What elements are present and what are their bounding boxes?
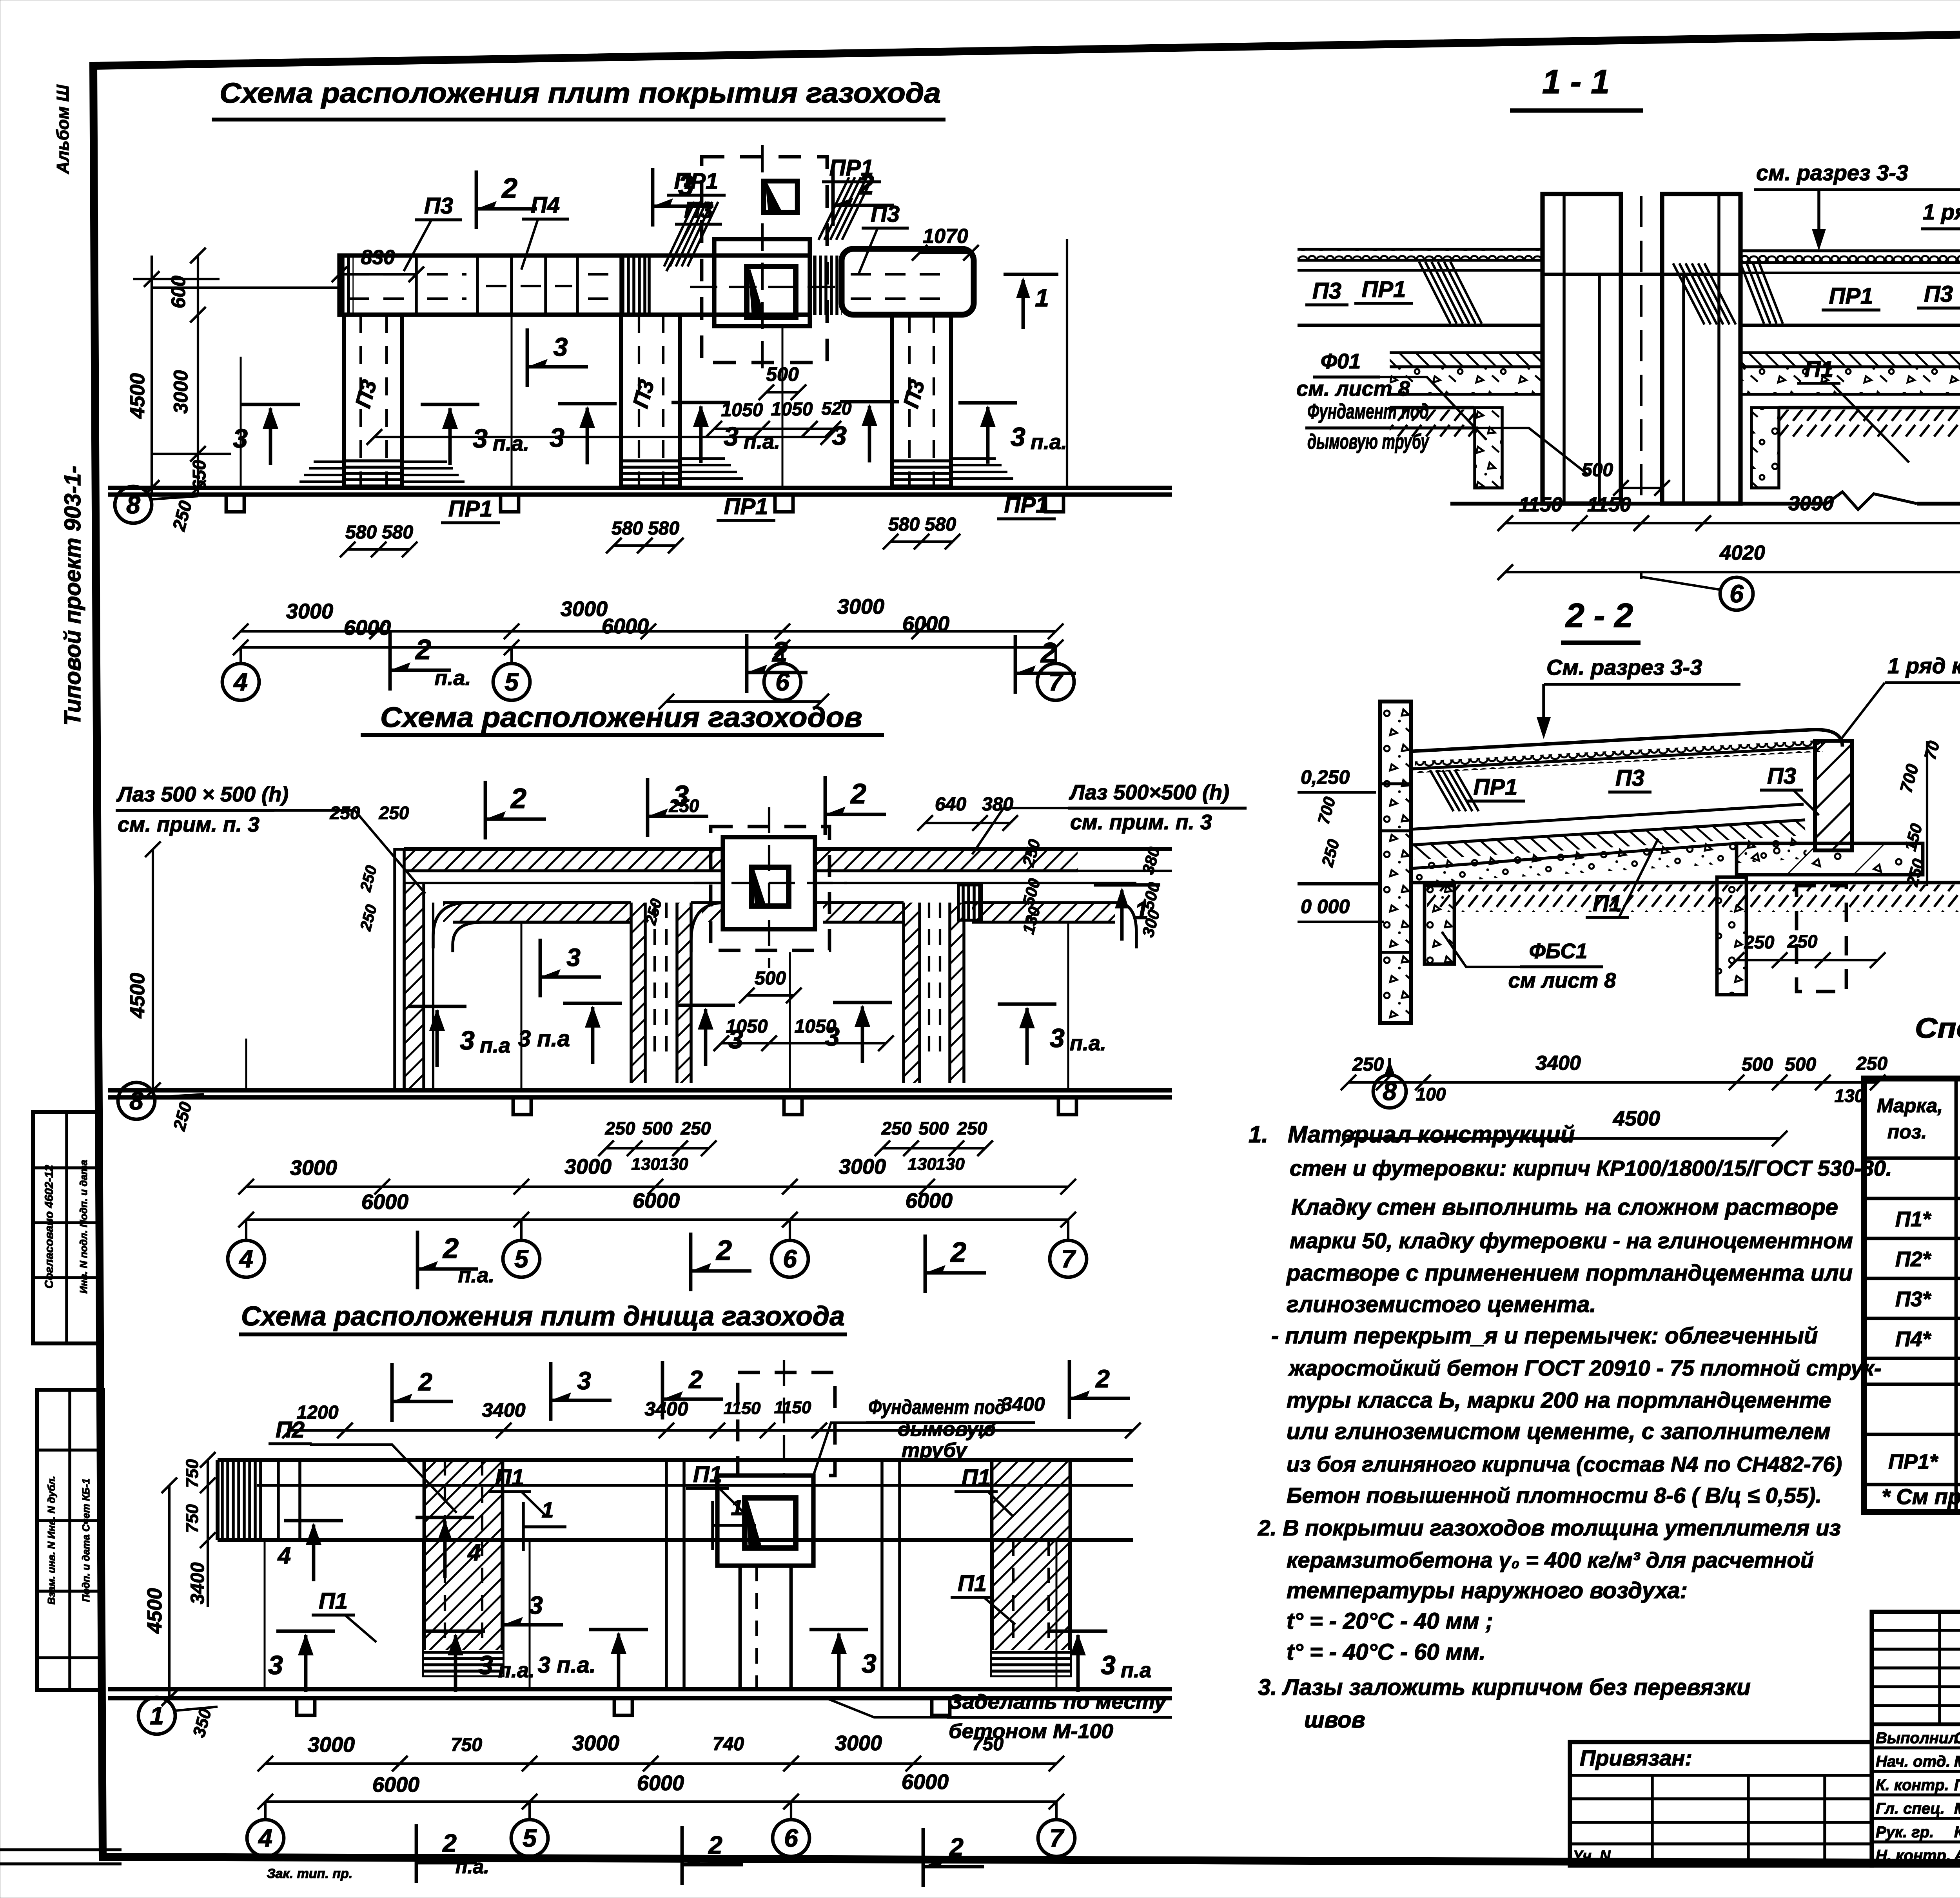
svg-text:дымовую трубу: дымовую трубу (1307, 430, 1430, 453)
plan3 axis lines in bays (264, 1542, 266, 1687)
section 2-2 right wall brick (1815, 741, 1852, 850)
svg-text:3: 3 (1011, 422, 1025, 452)
svg-text:3: 3 (566, 943, 581, 972)
svg-text:п.а: п.а (1121, 1659, 1151, 1682)
section 2-2 bottom dims (1348, 1081, 1878, 1084)
svg-text:2: 2 (415, 634, 431, 665)
svg-text:П3*: П3* (1895, 1287, 1932, 1311)
plan3 marks 3 in bays (276, 1630, 335, 1633)
svg-text:4500: 4500 (1613, 1107, 1660, 1130)
svg-text:ПР1: ПР1 (829, 155, 874, 181)
svg-text:Мирской: Мирской (1954, 1800, 1960, 1817)
svg-text:6000: 6000 (902, 1770, 949, 1794)
svg-text:4020: 4020 (1719, 542, 1765, 564)
section 1-1 ground line + hatch (1390, 406, 1474, 410)
svg-text:ПР1: ПР1 (1474, 774, 1518, 800)
svg-text:3000: 3000 (561, 597, 608, 621)
plan1 dims 1050 1050 520 (714, 428, 833, 430)
svg-text:6000: 6000 (344, 616, 391, 640)
svg-text:1.: 1. (1249, 1121, 1268, 1148)
plan2 duct inner line below top wall (404, 882, 723, 884)
svg-text:t° = - 20°C - 40 мм: t° = - 20°C - 40 мм ; (1287, 1608, 1493, 1634)
svg-text:см. прим. п. 3: см. прим. п. 3 (1070, 810, 1212, 834)
section 2-2 dims 250 250 right (1737, 959, 1878, 961)
plan2 top dims 250 250 (374, 436, 828, 438)
section 2-2 right rotated dims (1926, 741, 1928, 886)
svg-text:2. В покрытии газоходов тол: 2. В покрытии газоходов толщина утеплите… (1258, 1515, 1841, 1541)
svg-text:П1*: П1* (1895, 1207, 1932, 1231)
plan3 bottom dims 3000 (265, 1762, 1056, 1765)
plan3 top dims 1200 3400 3400 1150 1150 3400 (290, 1429, 1133, 1432)
svg-text:130: 130 (631, 1155, 660, 1174)
plan1 dim 830 (339, 273, 416, 276)
svg-text:1050: 1050 (771, 399, 813, 420)
plan1 axis circle 8 (115, 486, 152, 523)
svg-text:Бетон повышенной плотности: Бетон повышенной плотности 8-6 ( В/ц ≤ 0… (1287, 1483, 1822, 1508)
svg-text:3400: 3400 (1535, 1052, 1581, 1075)
svg-text:П1: П1 (693, 1462, 722, 1487)
svg-text:п.а.: п.а. (458, 1264, 494, 1287)
svg-text:3000: 3000 (564, 1155, 612, 1178)
svg-text:2: 2 (1095, 1365, 1110, 1393)
svg-text:580: 580 (612, 518, 643, 539)
plan3 lower columns (424, 1540, 503, 1675)
section 1-1 concrete band (1390, 367, 1543, 394)
svg-text:п.а: п.а (480, 1034, 510, 1057)
svg-text:Рук. гр.: Рук. гр. (1876, 1824, 1934, 1841)
plan1 left vertical dims (197, 256, 199, 495)
plan1 lower dim row 580 580 + ПР1 labels (348, 548, 410, 551)
svg-text:жаростойкий бетон ГОСТ 20910 -: жаростойкий бетон ГОСТ 20910 - 75 плотно… (1288, 1356, 1881, 1380)
svg-text:2: 2 (442, 1233, 459, 1264)
svg-text:3000: 3000 (572, 1731, 619, 1755)
svg-text:3: 3 (1050, 1023, 1065, 1053)
plan1 axis lines in bays (240, 357, 242, 486)
svg-text:2: 2 (771, 636, 788, 668)
svg-text:250: 250 (669, 796, 699, 816)
svg-text:500: 500 (1742, 1054, 1773, 1075)
svg-text:Материал конструкций: Материал конструкций (1288, 1121, 1575, 1148)
svg-text:Заделать по месту: Заделать по месту (949, 1691, 1167, 1713)
plan3 chimney dashed outline above (738, 1372, 835, 1476)
svg-text:ПР1: ПР1 (1004, 492, 1049, 518)
plan2 mark 3 mid (539, 939, 542, 997)
svg-text:580: 580 (888, 514, 920, 535)
plan3 furnace square (717, 1476, 813, 1566)
svg-text:П1: П1 (495, 1465, 524, 1490)
left margin stamp column lower (37, 1390, 103, 1690)
svg-text:Привязан:: Привязан: (1580, 1746, 1692, 1770)
svg-text:2: 2 (510, 783, 526, 814)
svg-text:580: 580 (382, 522, 413, 543)
section 2-2 axis circle 8 (1373, 1075, 1406, 1108)
svg-text:8: 8 (129, 1087, 143, 1115)
svg-text:Поворинск.: Поворинск. (1954, 1777, 1960, 1794)
svg-text:п.а.: п.а. (434, 666, 471, 690)
plan1 wall column 1 (344, 315, 402, 488)
svg-text:3000: 3000 (835, 1731, 882, 1755)
plan1 wall column 2 (621, 315, 680, 488)
plan3 band pier lines (665, 1460, 668, 1540)
svg-text:п.а.: п.а. (1031, 430, 1067, 454)
svg-text:марки 50, кладку футеровки: марки 50, кладку футеровки - на глиноцем… (1290, 1228, 1853, 1253)
svg-text:поз.: поз. (1887, 1121, 1927, 1143)
svg-text:П1: П1 (319, 1588, 348, 1614)
svg-text:5: 5 (514, 1245, 529, 1273)
plan1 section mark 2 right (top) (831, 167, 835, 226)
section 2-2 footing piers (1425, 886, 1454, 964)
plan1 lintel hatch strips ПР1 (621, 256, 649, 315)
plan3 band left end cells (218, 1460, 261, 1540)
left margin stamp column upper (33, 1112, 100, 1343)
svg-text:Подп. и дата Счет КБ-1: Подп. и дата Счет КБ-1 (80, 1478, 92, 1602)
plan3 band hatched plate right (992, 1460, 1070, 1540)
svg-text:500: 500 (642, 1118, 673, 1138)
svg-text:2: 2 (715, 1235, 732, 1266)
plan2 mark 1 arrow right (1094, 883, 1160, 887)
svg-text:3: 3 (460, 1026, 475, 1055)
svg-text:0,250: 0,250 (1301, 766, 1350, 788)
svg-text:t° = - 40°C - 60 мм: t° = - 40°C - 60 мм. (1287, 1639, 1486, 1665)
plan2 axis circles (245, 1220, 247, 1240)
svg-text:250: 250 (681, 1118, 711, 1138)
svg-text:1150: 1150 (1519, 493, 1563, 516)
svg-text:2: 2 (708, 1831, 722, 1859)
plan1 chimney small square (764, 181, 797, 212)
plan3 left vertical dims (207, 1460, 209, 1607)
svg-text:750: 750 (451, 1735, 482, 1755)
spec table grid (1864, 1079, 1960, 1512)
plan2 inner wall band with rounded corners bay1 (433, 903, 604, 948)
plan1 lintel fan left (664, 202, 695, 266)
section 2-2 ground line (1298, 882, 1380, 886)
plan3 marks 4 below band (284, 1519, 343, 1523)
svg-text:Моргунов: Моргунов (1954, 1753, 1960, 1770)
svg-text:Типовой проект 903-1-: Типовой проект 903-1- (60, 466, 85, 725)
section 2-2 lintel fan (1430, 770, 1454, 811)
plan2 bottom small dims 250 500 250 + 130 130 (606, 1147, 709, 1149)
plan1 plate band (плиты покрытия) (339, 256, 810, 315)
svg-text:П2*: П2* (1895, 1247, 1932, 1271)
plan3 section mark 3 in bay (501, 1586, 505, 1645)
svg-text:Выполнил: Выполнил (1876, 1729, 1958, 1747)
svg-text:дымовую: дымовую (898, 1418, 996, 1441)
plan2 section marks in bays (408, 1005, 466, 1008)
svg-text:или глиноземистом цементе,: или глиноземистом цементе, с заполнителе… (1287, 1419, 1831, 1444)
plan1 base tabs (226, 495, 244, 512)
plan2 base tabs (513, 1097, 531, 1115)
plan2 inner wall band bay2 (691, 903, 725, 952)
svg-text:Альбом Ш: Альбом Ш (53, 84, 73, 174)
plan1 plate band right rounded plate (842, 249, 974, 315)
svg-text:П3: П3 (684, 198, 713, 223)
svg-text:8: 8 (126, 491, 140, 519)
svg-text:130: 130 (659, 1155, 688, 1174)
plan2 bottom section marks (416, 1231, 419, 1289)
svg-text:4: 4 (233, 668, 248, 696)
svg-text:1 - 1: 1 - 1 (1542, 63, 1610, 101)
svg-text:1070: 1070 (923, 225, 968, 248)
svg-text:380: 380 (982, 794, 1013, 815)
svg-text:3. Лазы заложить кирпичом: 3. Лазы заложить кирпичом без перевязки (1258, 1675, 1751, 1700)
plan1 section marks inside bays (241, 403, 300, 406)
svg-text:3: 3 (554, 332, 568, 361)
svg-text:3: 3 (862, 1649, 877, 1679)
plan2 dim 500 1050 1050 (747, 994, 794, 997)
section 1-1 wing interiors (1298, 324, 1543, 327)
svg-text:температуры наружного воздух: температуры наружного воздуха: (1287, 1578, 1688, 1603)
plan1 column corbel steps (402, 460, 447, 463)
svg-text:100: 100 (1416, 1084, 1446, 1104)
svg-text:3: 3 (233, 424, 248, 453)
plan1 wall column 3 (892, 315, 951, 488)
svg-text:4: 4 (258, 1824, 272, 1852)
plan1 dim row 6000 (241, 646, 1056, 649)
svg-text:7: 7 (1049, 1824, 1065, 1852)
section 2-2 left wall (1380, 702, 1411, 1023)
svg-text:Абрамова: Абрамова (1954, 1847, 1960, 1864)
svg-text:ПР1*: ПР1* (1888, 1450, 1939, 1474)
svg-text:250: 250 (379, 803, 409, 823)
svg-text:П3: П3 (1615, 765, 1644, 791)
svg-text:6: 6 (784, 1824, 798, 1852)
section 1-1 footing piers (1475, 408, 1502, 488)
svg-text:1: 1 (1035, 284, 1049, 312)
svg-text:3000: 3000 (290, 1156, 337, 1180)
svg-text:1150: 1150 (774, 1398, 811, 1417)
svg-text:5: 5 (523, 1824, 537, 1852)
svg-text:Лаз 500 × 500 (h): Лаз 500 × 500 (h) (116, 783, 289, 806)
plan2 furnace square (723, 837, 815, 929)
svg-text:1 ряд кирпича: 1 ряд кирпича (1887, 653, 1960, 678)
svg-text:6: 6 (1730, 580, 1744, 608)
section 2-2 sloped cover (1411, 730, 1842, 751)
svg-text:ПР1: ПР1 (1362, 277, 1406, 302)
svg-text:4: 4 (238, 1245, 253, 1273)
plan1 section mark 3 mid bay (526, 328, 529, 387)
plan1 furnace inner square (747, 266, 796, 317)
section 2-2 dim 4500 (1348, 1137, 1780, 1140)
plan1 chimney foundation dashed outline (702, 157, 827, 363)
svg-text:из боя глиняного кирпича (с: из боя глиняного кирпича (состав N4 по С… (1287, 1452, 1842, 1476)
plan2 dims 640 380 (925, 822, 980, 824)
svg-text:П3: П3 (871, 201, 900, 227)
svg-text:П1: П1 (962, 1465, 991, 1490)
svg-text:глиноземистого цемента.: глиноземистого цемента. (1287, 1292, 1596, 1317)
svg-text:3: 3 (577, 1367, 591, 1395)
svg-text:1150: 1150 (724, 1399, 761, 1418)
svg-text:1150: 1150 (1587, 493, 1631, 516)
svg-text:500: 500 (1582, 460, 1613, 480)
svg-text:П3: П3 (424, 193, 453, 219)
svg-text:3000: 3000 (308, 1733, 355, 1757)
svg-text:7: 7 (1061, 1245, 1076, 1273)
plan2 chimney dashed outline (711, 827, 829, 950)
section 1-1 base line (1450, 502, 1827, 506)
plan2 left vertical dim 4500 (152, 849, 154, 1097)
section 2-2 bottom slab (1411, 804, 1804, 829)
svg-text:П3: П3 (1924, 281, 1953, 307)
svg-text:Катаева: Катаева (1954, 1824, 1960, 1841)
svg-text:туры класса Ь, марки 200: туры класса Ь, марки 200 на портландцеме… (1287, 1388, 1831, 1413)
svg-text:2: 2 (950, 1237, 966, 1268)
section 1-1 lintel hatch right wing (1673, 263, 1704, 324)
section 2-2 base under right wall (1737, 843, 1923, 875)
svg-text:П1: П1 (1593, 891, 1622, 916)
svg-text:3400: 3400 (482, 1399, 525, 1421)
svg-text:ПР1: ПР1 (724, 494, 768, 519)
svg-text:4: 4 (278, 1543, 291, 1569)
svg-text:1: 1 (731, 1495, 743, 1520)
svg-text:250: 250 (957, 1118, 987, 1138)
svg-text:Марка,: Марка, (1877, 1095, 1943, 1117)
svg-text:Схема расположения плит пок: Схема расположения плит покрытия газоход… (220, 78, 941, 109)
svg-text:2 - 2: 2 - 2 (1565, 597, 1633, 634)
svg-text:3: 3 (1101, 1650, 1116, 1680)
svg-text:500: 500 (766, 363, 799, 385)
svg-text:750: 750 (972, 1734, 1004, 1755)
svg-text:580: 580 (925, 514, 956, 535)
svg-text:3090: 3090 (1788, 492, 1834, 515)
svg-text:4500: 4500 (126, 973, 149, 1019)
svg-text:- плит перекрыт_я и перемы: - плит перекрыт_я и перемычек: облегченн… (1271, 1323, 1818, 1349)
svg-text:стен и футеровки: кирпич КР100: стен и футеровки: кирпич КР100/1800/15/Г… (1290, 1156, 1892, 1180)
svg-text:600: 600 (167, 276, 189, 308)
svg-text:п.а.: п.а. (456, 1856, 489, 1878)
svg-text:Схема расположения плит дни: Схема расположения плит днища газохода (241, 1301, 845, 1331)
svg-text:1: 1 (541, 1497, 554, 1522)
plan1 mark 1 arrow in band (1004, 273, 1058, 276)
plan3 base line (108, 1687, 1172, 1691)
svg-text:3400: 3400 (187, 1562, 208, 1604)
svg-text:250: 250 (1856, 1053, 1887, 1074)
svg-text:Схема расположения газоходов: Схема расположения газоходов (380, 702, 862, 733)
svg-text:6000: 6000 (637, 1771, 684, 1795)
svg-text:3 п.а: 3 п.а (518, 1026, 570, 1051)
svg-text:П4*: П4* (1895, 1327, 1932, 1351)
svg-text:п.а.: п.а. (493, 432, 529, 455)
svg-text:растворе с применением порт: растворе с применением портландцемента и… (1286, 1260, 1853, 1286)
plan3 bottom dims 6000 (265, 1800, 1056, 1803)
svg-text:* См примечание п 1: * См примечание п 1 (1882, 1484, 1960, 1509)
svg-text:Соловьев: Соловьев (1954, 1729, 1960, 1747)
svg-text:750: 750 (183, 1459, 202, 1488)
plan2 section marks top (484, 781, 487, 839)
svg-text:см. прим. п. 3: см. прим. п. 3 (118, 813, 260, 836)
plan2 pier pair right (904, 903, 920, 1083)
svg-text:Зак. тип. пр.: Зак. тип. пр. (267, 1866, 353, 1881)
plan2 right end hatch block (958, 885, 982, 920)
bottom-left corner stamp (0, 1848, 122, 1851)
svg-text:швов: швов (1304, 1707, 1365, 1733)
plan1 dim 1070 (920, 252, 971, 254)
svg-text:6000: 6000 (906, 1189, 953, 1213)
svg-text:750: 750 (183, 1504, 202, 1533)
svg-text:см лист 8: см лист 8 (1508, 969, 1616, 992)
svg-text:4500: 4500 (143, 1588, 166, 1634)
svg-text:К. контр.: К. контр. (1876, 1777, 1949, 1794)
plan3 foundation band (218, 1458, 1133, 1462)
svg-text:Кладку стен выполнить на сл: Кладку стен выполнить на сложном раствор… (1291, 1195, 1838, 1220)
svg-text:1050: 1050 (795, 1016, 837, 1037)
svg-text:3: 3 (268, 1650, 283, 1680)
svg-text:3: 3 (529, 1591, 543, 1619)
title block mini grid (1872, 1612, 1960, 1865)
svg-text:П1: П1 (958, 1571, 987, 1596)
svg-text:Лаз 500×500 (h): Лаз 500×500 (h) (1069, 781, 1229, 804)
svg-text:П4: П4 (531, 192, 560, 218)
svg-text:250: 250 (881, 1118, 912, 1138)
section 1-1 chimney towers (1543, 194, 1621, 504)
plan2 base line (108, 1088, 1172, 1092)
plan1 base wall line (108, 486, 1172, 490)
svg-text:Согласовано 4602-12: Согласовано 4602-12 (43, 1165, 56, 1289)
svg-text:6000: 6000 (633, 1189, 680, 1213)
section 1-1 floor hatched band (1390, 353, 1543, 367)
svg-text:2: 2 (850, 778, 866, 810)
plan3 axis circle 1 left (138, 1697, 175, 1734)
svg-text:П1: П1 (1804, 357, 1833, 382)
svg-text:Уч. N: Уч. N (1573, 1848, 1611, 1864)
plan3 axis circles (264, 1802, 267, 1818)
svg-text:6000: 6000 (602, 615, 649, 638)
svg-text:ПР1: ПР1 (448, 496, 493, 522)
svg-text:1050: 1050 (721, 400, 763, 421)
svg-text:керамзитобетона γ₀ = 400 кг/м³: керамзитобетона γ₀ = 400 кг/м³ для расче… (1287, 1548, 1814, 1572)
svg-text:6: 6 (783, 1245, 797, 1273)
svg-text:580: 580 (648, 518, 679, 539)
svg-text:0 000: 0 000 (1301, 896, 1350, 917)
svg-text:4500: 4500 (126, 373, 149, 419)
svg-text:3400: 3400 (644, 1398, 688, 1420)
svg-text:740: 740 (713, 1734, 744, 1755)
svg-text:3000: 3000 (837, 595, 884, 618)
svg-text:3: 3 (832, 421, 847, 451)
svg-text:500: 500 (1785, 1054, 1816, 1075)
section 1-1 flue centre line (1640, 196, 1642, 506)
section 1-1 left wing cover (1298, 249, 1543, 260)
svg-text:650: 650 (189, 460, 209, 490)
svg-text:П2: П2 (276, 1417, 305, 1443)
svg-text:5: 5 (505, 668, 519, 696)
section 1-1 right wing cover (1740, 251, 1960, 263)
svg-text:250: 250 (605, 1118, 635, 1138)
svg-text:130: 130 (936, 1155, 965, 1174)
svg-text:130: 130 (907, 1155, 936, 1174)
svg-text:3000: 3000 (286, 600, 333, 623)
svg-text:500: 500 (919, 1118, 949, 1138)
svg-text:520: 520 (822, 398, 852, 419)
svg-text:250: 250 (1352, 1054, 1384, 1075)
svg-text:См. разрез 3-3: См. разрез 3-3 (1546, 655, 1702, 680)
svg-text:трубу: трубу (902, 1439, 968, 1462)
svg-text:Взам. инв. N Инв. N дубл.: Взам. инв. N Инв. N дубл. (45, 1476, 57, 1604)
svg-text:130: 130 (1835, 1086, 1865, 1106)
svg-text:2: 2 (1040, 637, 1056, 669)
plan1 section mark 2 (top) (475, 170, 478, 229)
svg-text:8: 8 (1383, 1077, 1397, 1106)
svg-text:3400: 3400 (1001, 1393, 1045, 1415)
plan1 axis7 top line (1066, 239, 1068, 486)
svg-text:П3: П3 (1312, 278, 1341, 304)
svg-text:см. лист 8: см. лист 8 (1296, 377, 1410, 401)
svg-text:Гл. спец.: Гл. спец. (1876, 1800, 1945, 1817)
svg-text:Спецификация к схемам распо: Спецификация к схемам расположения плит (1915, 1013, 1960, 1044)
svg-text:2: 2 (688, 1365, 703, 1394)
plan2 inner wall band bay3 (right of furnace) (815, 901, 874, 904)
svg-text:ПР1: ПР1 (1829, 283, 1873, 309)
plan1 lintel fan right (818, 177, 849, 240)
